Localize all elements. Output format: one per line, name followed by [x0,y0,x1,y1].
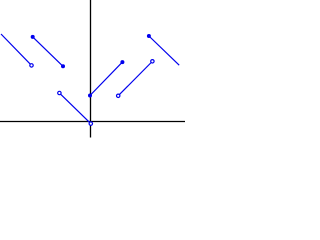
segment 2 line [33,37,63,66]
segment 5 open right endpoint [151,60,154,63]
segment 1 open endpoint [30,64,33,67]
segment 4 closed right endpoint [120,60,124,64]
segment 2 closed left endpoint [31,35,35,39]
segment 3 line [60,94,89,123]
segment 5 open left endpoint [117,94,120,97]
segment 5 line [119,62,151,94]
segment 6 line [149,36,179,65]
x-axis [0,121,185,123]
y-axis [90,0,92,138]
segment 1 line [1,34,30,64]
segment 4 closed left endpoint [88,94,92,98]
segment 2 closed right endpoint [61,64,65,68]
segment 6 closed left endpoint [147,34,151,38]
segment 3 open left endpoint [58,91,61,94]
segment 3 open right endpoint at origin [89,122,92,125]
segment 4 line [90,62,122,95]
